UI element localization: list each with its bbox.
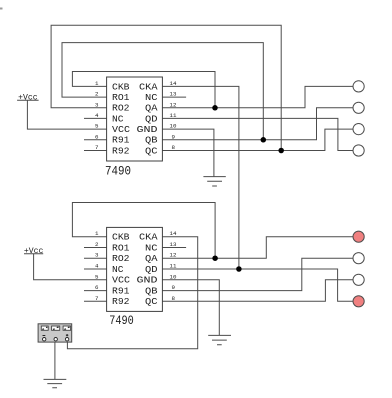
wire CKA U1 to QD U2 [162,86,239,269]
svg-text:13: 13 [170,91,177,98]
wire CKA U2 to connector plus [67,237,197,349]
svg-text:QA: QA [145,104,158,114]
svg-text:13: 13 [170,241,177,248]
svg-text:7490: 7490 [109,314,134,328]
pin 7 stub U2 [84,300,107,302]
svg-text:+Vcc: +Vcc [18,92,38,102]
svg-text:12: 12 [170,101,177,108]
connector J1 minus sign [43,335,46,337]
power +Vcc U1 underline [17,99,38,101]
terminal 3 QC U1 [353,124,364,135]
junction dot QA U2 [212,255,218,261]
svg-text:1: 1 [95,230,99,237]
svg-text:GND: GND [137,125,158,135]
svg-text:6: 6 [95,284,99,291]
svg-text:NC: NC [112,265,124,275]
junction dot QA U1 [212,105,218,111]
pin 2 stub U2 [84,247,107,249]
svg-text:4: 4 [95,263,99,270]
svg-text:8: 8 [172,144,176,151]
svg-text:QD: QD [145,114,158,124]
svg-text:QD: QD [145,265,158,275]
svg-text:6: 6 [95,133,99,140]
wire QA to CKB loop U2 [72,203,215,259]
connector J1 window 1 mark [42,327,47,329]
svg-text:11: 11 [170,263,177,270]
svg-text:1: 1 [95,80,99,87]
ground symbol U1 [203,177,225,186]
terminal 4 QD U1 [353,145,364,156]
pin 6 stub U1 [84,139,107,141]
wire QB U1 to terminal 2 [162,108,353,140]
wire QC to RO2 loop U1 [51,25,281,150]
svg-text:VCC: VCC [112,276,131,286]
svg-text:14: 14 [170,80,177,87]
svg-text:14: 14 [170,230,177,237]
svg-text:NC: NC [112,114,124,124]
connector J1 pin circle 3 [65,338,68,341]
power +Vcc U2 underline [24,253,43,255]
pin 3 stub U2 [84,257,107,259]
connector J1 window 1 [41,326,48,330]
svg-text:VCC: VCC [112,125,131,135]
svg-text:RO1: RO1 [112,93,130,103]
terminal 1 QA U1 [353,81,364,92]
svg-text:+Vcc: +Vcc [24,246,44,256]
connector J1 window 3 [63,326,71,330]
terminal A QA U2 red [353,231,364,242]
wire QC U1 to terminal 3 [162,129,353,150]
pin 6 stub U2 [84,290,107,292]
svg-text:4: 4 [95,112,99,119]
wire QA to CKB loop U1 [72,72,215,108]
power +Vcc U2 wire [34,254,107,280]
svg-text:2: 2 [95,241,99,248]
svg-text:R92: R92 [112,146,130,156]
svg-text:RO2: RO2 [112,254,130,264]
pin 13 NC stub U2 [162,247,186,249]
svg-text:RO2: RO2 [112,104,130,114]
ground symbol U2 [208,335,231,344]
svg-text:11: 11 [170,112,177,119]
svg-text:NC: NC [145,243,158,253]
wire QC U2 to terminal C [162,280,353,302]
screen edge tick [0,8,3,10]
connector J1 window 2 [52,326,60,330]
svg-text:CKB: CKB [112,82,130,92]
svg-text:CKB: CKB [112,233,130,243]
wire QA U1 to terminal 1 [162,86,353,107]
terminal 2 QB U1 [353,102,364,113]
wire connector minus to ground [54,342,56,379]
svg-text:CKA: CKA [139,233,158,243]
svg-text:QC: QC [145,146,158,156]
svg-text:5: 5 [95,123,99,130]
terminal D QD U2 red [353,296,364,307]
svg-text:10: 10 [170,273,177,280]
pin 7 stub U1 [84,150,107,152]
pin 13 NC stub U1 [162,96,186,98]
junction dot QC U1 [278,148,284,154]
power +Vcc U1 wire [27,100,106,129]
wire QB U2 to terminal B [162,258,353,290]
svg-text:GND: GND [137,276,158,286]
terminal B QB U2 [353,253,364,264]
pin 4 stub U1 [84,117,107,119]
svg-text:10: 10 [170,123,177,130]
svg-text:QC: QC [145,297,158,307]
IC U1 7490 box [107,77,163,161]
pin 4 stub U2 [84,268,107,270]
wire QB to RO1 loop U1 [62,43,263,140]
terminal C QC U2 [353,274,364,285]
svg-text:R91: R91 [112,287,130,297]
ground symbol connector [44,379,67,387]
svg-text:R91: R91 [112,136,130,146]
svg-text:12: 12 [170,252,177,259]
svg-text:2: 2 [95,91,99,98]
svg-text:7: 7 [95,144,99,151]
wire QA U2 to terminal A [162,237,353,259]
svg-text:5: 5 [95,273,99,280]
IC U2 7490 box [107,227,163,311]
svg-text:3: 3 [95,101,99,108]
connector J1 pin circle 2 [54,338,57,341]
wire QD U2 to terminal D [162,269,353,301]
connector J1 window 3 mark [64,327,69,329]
junction dot QB U1 [261,137,267,143]
wire GND U1 to ground [162,129,214,177]
svg-text:7490: 7490 [105,165,131,179]
wire GND U2 to ground [162,280,219,336]
svg-text:7: 7 [95,295,99,302]
svg-text:9: 9 [172,133,176,140]
svg-text:3: 3 [95,252,99,259]
connector J1 window 2 mark [53,327,59,329]
svg-text:8: 8 [172,295,176,302]
connector J1 pin circle 1 [43,338,46,341]
svg-text:RO1: RO1 [112,243,130,253]
svg-text:NC: NC [145,93,158,103]
svg-text:CKA: CKA [139,82,158,92]
junction dot QD U2 [236,266,242,272]
svg-text:QB: QB [145,287,158,297]
svg-text:9: 9 [172,284,176,291]
svg-text:R92: R92 [112,297,130,307]
svg-text:QA: QA [145,254,158,264]
svg-text:QB: QB [145,136,158,146]
connector J1 body [38,324,72,342]
connector J1 plus sign [66,334,68,336]
wire QD U1 to terminal 4 [162,118,353,150]
